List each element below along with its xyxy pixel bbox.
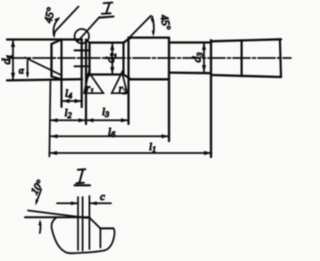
neck bottom surface	[87, 73, 124, 75]
dimension d1	[11, 40, 15, 81]
section E top	[211, 39, 281, 41]
chamfer edge line + l4 extension	[60, 40, 62, 108]
cone bottom to section C	[124, 75, 132, 80]
freehand break boundary blob	[51, 218, 114, 253]
dimension l4	[62, 99, 82, 103]
section C left edge + l3 extension	[127, 38, 129, 124]
shaft right end	[280, 39, 281, 77]
groove wall right detail	[88, 196, 90, 249]
groove right wall + l2 l3 extension	[85, 40, 87, 125]
svg-text:c: c	[100, 191, 105, 203]
left extension line for l2 l6 l1	[49, 82, 50, 157]
chamfer 45 deg left angle arc	[53, 19, 58, 36]
fillet r2 leader triangle	[112, 72, 128, 93]
dimension d2	[110, 43, 114, 75]
detail circle I	[75, 29, 89, 43]
dimension l6	[50, 134, 169, 138]
groove bottom top-side	[75, 49, 89, 51]
neck end edge	[122, 43, 124, 75]
horizontal reference surface	[25, 216, 89, 218]
fillet shoulder detail	[90, 218, 101, 229]
dimension l1	[50, 151, 212, 155]
leader to detail label I	[78, 17, 99, 41]
groove bottom lower-side	[75, 65, 89, 67]
inner edge detail	[99, 228, 101, 247]
groove left wall + l4 extension	[81, 40, 83, 108]
chamfer bottom-left	[52, 77, 62, 80]
section D top	[169, 41, 211, 43]
sloped 10deg surface	[28, 211, 88, 219]
section E bottom	[211, 75, 281, 77]
chamfer top-left	[52, 40, 62, 45]
neck start wall	[88, 43, 90, 75]
chamfer 45 deg right angle arc	[152, 17, 154, 34]
wire top surface d1 with extension	[7, 38, 82, 40]
chamfer 45 deg left leader	[55, 7, 79, 32]
cone top to section C	[124, 38, 132, 43]
dimension l3	[86, 118, 129, 122]
section D bottom	[169, 71, 211, 74]
alpha arrow	[27, 61, 29, 77]
chamfer 45 deg right leader	[125, 16, 151, 43]
alpha leader line	[25, 58, 61, 76]
neck surface right detail	[100, 227, 113, 229]
D/E step + l1 extension	[210, 40, 212, 157]
groove wall left detail	[77, 197, 79, 250]
slope groove to neck	[86, 40, 90, 43]
fillet r1 leader triangle	[84, 72, 103, 93]
section C bottom	[129, 78, 170, 80]
C/D step + l6 extension	[168, 38, 170, 141]
wire bottom surface d1 with extension	[7, 79, 82, 80]
label I main	[102, 3, 113, 14]
angle arrow above	[36, 190, 41, 203]
dimension c line left part	[57, 202, 111, 204]
section E inner joint line	[241, 41, 243, 77]
angle arrow below	[39, 222, 42, 233]
slope groove to neck bottom	[86, 75, 90, 79]
centerline main axis	[8, 57, 291, 59]
neck top surface	[90, 41, 124, 43]
label I detail	[76, 169, 85, 183]
dimension d3	[202, 43, 206, 73]
groove wall middle detail	[82, 197, 84, 251]
shaft left end face	[50, 44, 52, 77]
dimension l2	[50, 118, 86, 122]
section C top	[129, 36, 170, 38]
